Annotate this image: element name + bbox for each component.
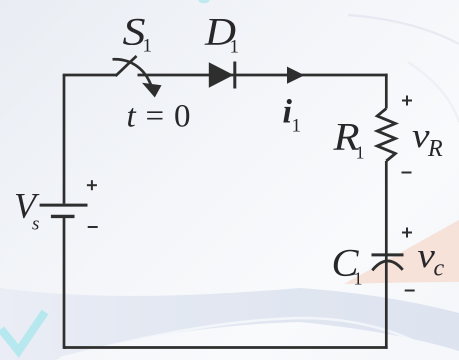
- label Vs: [14, 186, 40, 235]
- switch S1 closing arrow: [113, 59, 162, 97]
- label R1: [332, 116, 364, 163]
- wire right segment (capacitor to bottom-right corner): [385, 255, 388, 349]
- label vc: [417, 236, 444, 282]
- wire bottom: [64, 346, 388, 349]
- current arrow i1: [287, 67, 305, 84]
- label i1: [283, 94, 302, 137]
- label C1: [332, 242, 363, 289]
- minus sign capacitor: [405, 290, 415, 292]
- switch S1 blade: [116, 56, 137, 76]
- label S1: [123, 11, 153, 57]
- svg-text:1: 1: [230, 37, 240, 58]
- svg-text:s: s: [32, 214, 39, 235]
- wire right segment (resistor to capacitor): [385, 161, 388, 255]
- wire right segment (top-right corner to resistor): [385, 74, 388, 109]
- svg-text:1: 1: [354, 269, 363, 289]
- svg-text:1: 1: [143, 36, 153, 57]
- label D1: [204, 11, 239, 58]
- wire top-left segment (corner to switch): [63, 74, 117, 77]
- svg-text:1: 1: [292, 116, 302, 137]
- diode D1: [209, 62, 235, 89]
- wire top segment (switch to top-right corner): [138, 74, 388, 77]
- battery Vs: [40, 205, 88, 216]
- svg-text:R: R: [427, 136, 443, 162]
- wire left segment (top-left corner down to battery): [63, 75, 66, 204]
- plus sign capacitor: [402, 228, 412, 238]
- svg-text:c: c: [434, 256, 445, 282]
- plus sign battery: [87, 180, 97, 190]
- plus sign resistor: [402, 96, 412, 106]
- svg-text:t = 0: t = 0: [127, 99, 192, 135]
- label vR: [412, 116, 443, 162]
- wire left segment (battery down to bottom-left corner): [63, 218, 66, 349]
- minus sign battery: [88, 226, 98, 228]
- capacitor C1: [372, 255, 404, 270]
- minus sign resistor: [402, 172, 412, 174]
- resistor R1: [377, 109, 395, 162]
- svg-text:1: 1: [356, 143, 365, 163]
